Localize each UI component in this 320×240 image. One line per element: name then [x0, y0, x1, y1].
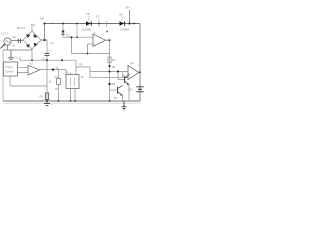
node rail J2: [44, 23, 46, 25]
arrow plug: [1, 45, 5, 49]
wire right edge: [139, 24, 141, 102]
svg-text:2K: 2K: [112, 65, 116, 69]
wire base Q1: [118, 72, 125, 80]
svg-text:2: 2: [94, 31, 96, 35]
ground G1: [44, 101, 50, 105]
svg-text:C1: C1: [50, 41, 54, 45]
svg-text:Z1: Z1: [67, 34, 71, 38]
node J16: [61, 59, 63, 61]
svg-text:-: -: [94, 36, 95, 40]
svg-text:R5: R5: [79, 63, 83, 67]
connector P1: [18, 39, 20, 43]
wire Q2 emitter down: [121, 95, 123, 101]
wire U1a out: [106, 39, 110, 41]
svg-text:A2: A2: [130, 61, 134, 65]
svg-text:1K: 1K: [55, 87, 59, 91]
wire Q1 emitter down: [128, 85, 130, 102]
resistor R7: [108, 57, 111, 63]
transistor Q2: [117, 87, 119, 94]
wire bottom rail shadow: [3, 102, 140, 104]
svg-text:R9: R9: [40, 95, 44, 99]
resistor RS sense: [45, 93, 48, 100]
svg-text:Q1: Q1: [122, 74, 126, 78]
transistor Q1: [124, 77, 126, 84]
op-amp U1b: [28, 65, 40, 75]
node rail J4: [98, 23, 100, 25]
svg-text:1K: 1K: [49, 80, 52, 84]
zener Z1: [62, 23, 64, 25]
wire AC bottom: [3, 46, 32, 51]
svg-text:R7: R7: [112, 58, 116, 62]
wire box outputs: [18, 67, 29, 72]
svg-text:R8: R8: [112, 82, 116, 86]
wire divider leg: [72, 37, 110, 53]
svg-text:7: 7: [138, 65, 140, 68]
wire junction up to rail: [44, 24, 46, 41]
node J8: [133, 23, 135, 25]
svg-text:+: +: [50, 49, 52, 53]
node J10: [117, 70, 119, 72]
earth ground E1: [8, 50, 14, 59]
wire box bottom: [10, 76, 47, 86]
wire U2 feedback: [122, 72, 124, 78]
node J9: [52, 68, 54, 70]
wire AC to bridge: [11, 40, 23, 42]
bridge top stub: [31, 27, 33, 32]
box relay K1: [66, 75, 79, 89]
diode D3: [26, 44, 30, 48]
svg-text:117V: 117V: [1, 32, 8, 36]
wire box K1 bottom: [71, 89, 76, 102]
wire U1a out down: [109, 40, 111, 101]
svg-text:12V: 12V: [128, 88, 133, 92]
svg-text:D1-D4: D1-D4: [17, 26, 26, 30]
diode D2: [34, 34, 38, 38]
wire top rail: [45, 23, 140, 25]
capacitor C1: [46, 40, 48, 53]
wire bottom rail: [3, 100, 140, 102]
circuit schematic: automatic battery charger: [0, 0, 149, 120]
node J18: [87, 53, 89, 55]
svg-text:AC: AC: [12, 35, 17, 39]
op-amp U1a: [93, 34, 106, 47]
node J6: [108, 65, 110, 67]
wire mid net: [20, 57, 128, 78]
ground G2: [122, 101, 127, 110]
svg-text:+: +: [94, 43, 96, 47]
svg-text:1N5400: 1N5400: [120, 28, 130, 32]
wire U1a feedback: [88, 44, 94, 54]
svg-text:F1: F1: [96, 15, 100, 19]
node J14: [74, 100, 76, 102]
svg-text:D5: D5: [87, 12, 91, 16]
node bridge negative: [31, 59, 33, 61]
wire bridge bottom down: [31, 49, 33, 60]
node J17: [71, 36, 73, 38]
svg-text:S1: S1: [15, 56, 19, 60]
wire U1b out: [40, 70, 67, 75]
diode D5 on rail: [86, 21, 91, 26]
svg-text:A1: A1: [30, 61, 34, 65]
node U2 output: [139, 71, 141, 73]
tick S2: [106, 21, 108, 27]
battery BT1: [136, 86, 144, 88]
svg-text:D6: D6: [119, 12, 123, 16]
box timing control: [4, 62, 18, 76]
svg-text:+: +: [42, 50, 44, 54]
node J1: [43, 39, 45, 41]
svg-text:LM358: LM358: [82, 28, 91, 32]
svg-text:Timing: Timing: [5, 65, 13, 69]
node J5: [109, 39, 111, 41]
svg-text:60: 60: [12, 44, 15, 48]
wire left edge: [2, 50, 4, 101]
bridge rectifier BR1 diamond: [23, 31, 41, 49]
node pin7: [106, 31, 108, 33]
wire bridge out to junction: [41, 39, 47, 41]
svg-text:TIP: TIP: [114, 97, 118, 100]
wire rail tick: [52, 21, 54, 23]
svg-text:BR: BR: [31, 23, 35, 27]
node J12: [46, 100, 48, 102]
svg-text:Control: Control: [5, 70, 14, 74]
wire B+ stub: [129, 10, 131, 24]
wire K1 left pin stub: [70, 72, 72, 75]
node J13: [58, 100, 60, 102]
wire D5 leader: [88, 16, 90, 21]
node J15: [109, 100, 111, 102]
svg-text:K1: K1: [67, 71, 71, 75]
svg-text:2K: 2K: [56, 66, 60, 70]
svg-text:16V: 16V: [40, 17, 45, 21]
diode D1: [26, 34, 30, 38]
node J11: [108, 83, 110, 85]
resistor R1 rail feed: [76, 24, 78, 38]
AC source T1: [4, 38, 11, 45]
op-amp U2: [128, 66, 139, 80]
node J7: [109, 71, 111, 73]
svg-text:B+: B+: [126, 6, 130, 10]
diode D4: [34, 43, 38, 47]
node J3: [46, 59, 48, 61]
diode D6 on rail: [120, 21, 125, 26]
svg-text:1K: 1K: [81, 75, 84, 79]
wire base Q2: [110, 89, 118, 91]
